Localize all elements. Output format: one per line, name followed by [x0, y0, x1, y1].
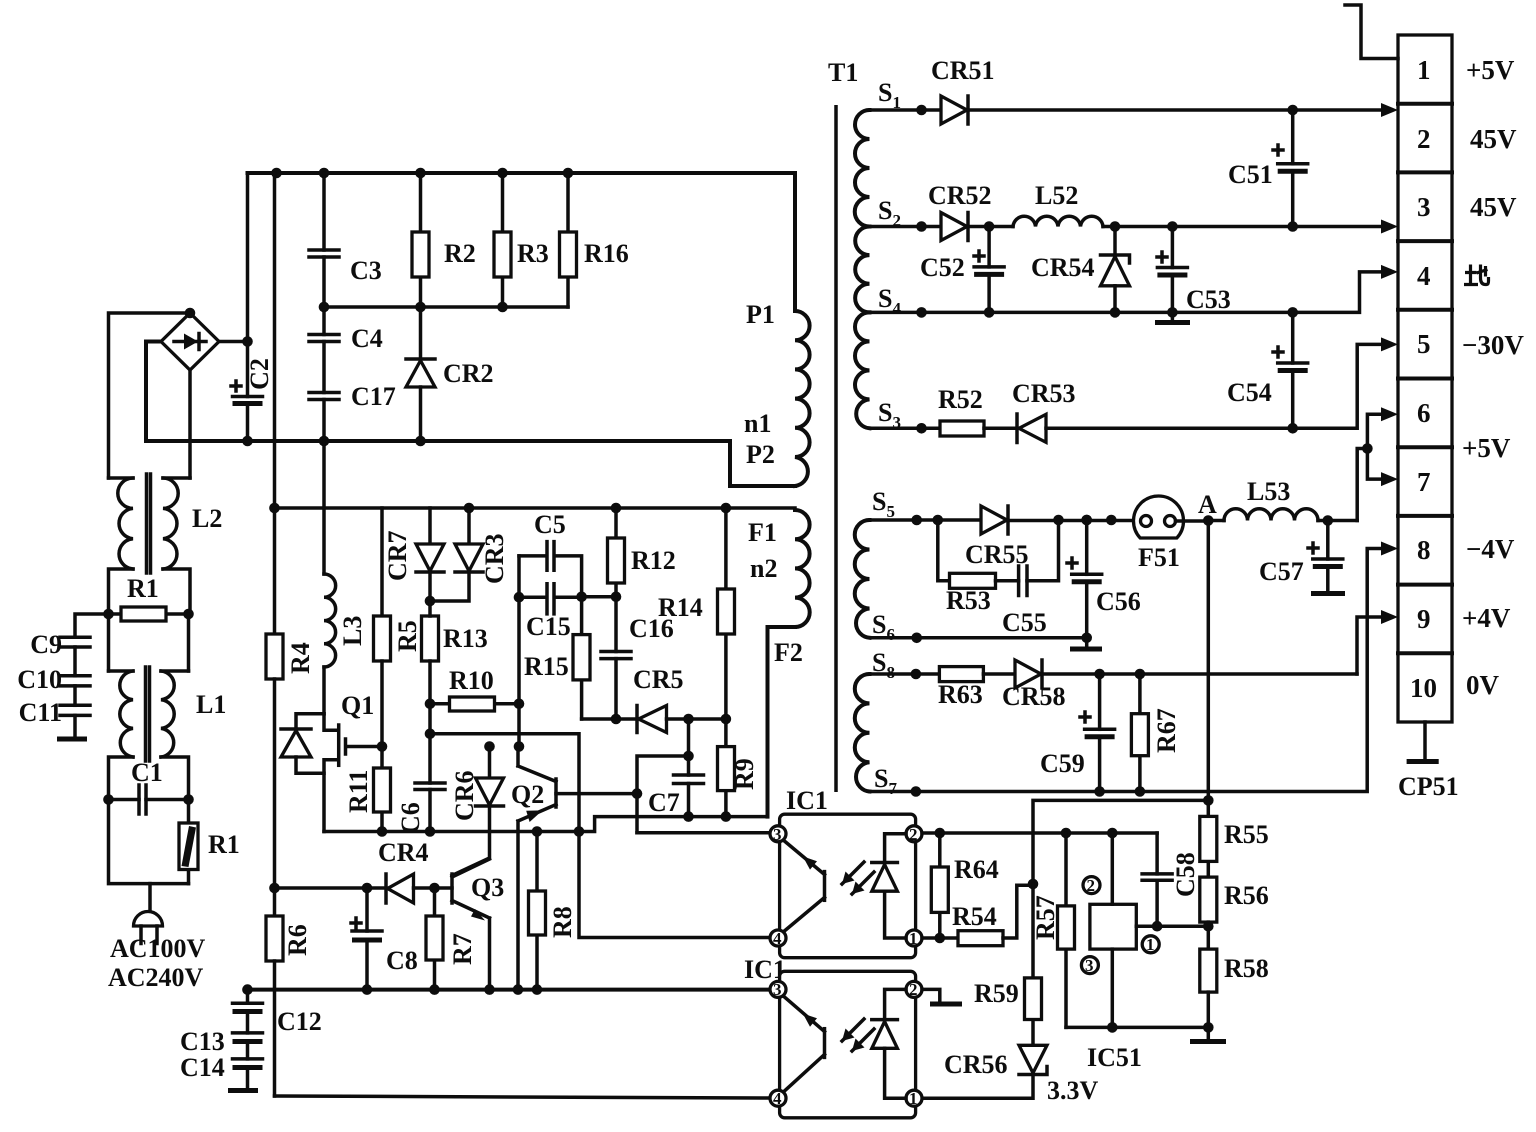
svg-text:Q2: Q2: [511, 780, 544, 809]
svg-text:C55: C55: [1002, 608, 1047, 637]
ground below C56: [1085, 638, 1089, 647]
capacitor C4: [309, 307, 383, 393]
wire P2 return bus: [146, 342, 795, 487]
resistor R57: [1031, 833, 1075, 1027]
svg-text:3.3V: 3.3V: [1047, 1076, 1099, 1105]
resistor R56: [1200, 877, 1269, 949]
arrow into pin 3: [1381, 220, 1398, 234]
svg-text:CR54: CR54: [1031, 253, 1095, 282]
svg-text:C1: C1: [131, 758, 163, 787]
capacitor C59: [1040, 674, 1115, 797]
node C51 bottom junction: [1287, 221, 1298, 232]
capacitor C56: [1067, 515, 1141, 643]
inductor L3: [324, 441, 367, 714]
winding S1-S2: [855, 110, 870, 227]
svg-text:F51: F51: [1138, 543, 1180, 572]
diode CR51: [870, 56, 995, 124]
svg-text:3: 3: [773, 825, 782, 844]
capacitor C52: [920, 221, 1004, 318]
resistor R11: [344, 747, 391, 837]
diode CR3: [430, 508, 509, 601]
svg-text:R7: R7: [448, 933, 477, 965]
resistor R53: [938, 520, 1019, 615]
svg-text:9: 9: [1417, 604, 1431, 634]
svg-text:10: 10: [1410, 673, 1437, 703]
node R13/C6 feedback junction: [425, 729, 436, 740]
diode CR55: [870, 506, 1141, 569]
svg-text:4: 4: [1417, 261, 1431, 291]
ground below C53: [1171, 312, 1175, 320]
transformer T1 primary P1 winding: [744, 173, 810, 486]
winding S8-S7: [855, 674, 870, 792]
wire R57 rail feed: [1033, 800, 1208, 884]
arrow into pin 4: [1381, 265, 1398, 279]
resistor R12: [582, 508, 676, 602]
capacitor C16: [601, 597, 674, 725]
node S7 tap junction: [911, 786, 922, 797]
wire gate line: [514, 741, 525, 752]
resistor R6: [266, 916, 312, 1096]
resistor R67: [1131, 674, 1181, 797]
svg-text:C6: C6: [396, 802, 425, 834]
svg-text:CR6: CR6: [450, 770, 479, 821]
svg-text:R13: R13: [443, 624, 488, 653]
svg-text:C56: C56: [1096, 587, 1141, 616]
capacitor C9: [30, 614, 108, 676]
arrow into pin 2: [1381, 103, 1398, 117]
svg-text:F2: F2: [774, 638, 803, 667]
svg-text:CR2: CR2: [443, 359, 494, 388]
node IC51 pin2 junction: [1107, 828, 1118, 839]
svg-text:R15: R15: [524, 652, 569, 681]
winding S4-S3: [855, 312, 870, 428]
transistor Q3: [452, 859, 504, 995]
capacitor C6: [396, 783, 445, 837]
resistor R16: [560, 173, 629, 307]
svg-text:Q3: Q3: [471, 873, 504, 902]
svg-text:CR7: CR7: [383, 530, 412, 581]
svg-text:8: 8: [1417, 535, 1431, 565]
zener CR56 3.3V: [922, 1045, 1099, 1105]
resistor R7: [426, 888, 477, 995]
svg-text:C51: C51: [1228, 160, 1273, 189]
capacitor C13: [180, 1027, 263, 1059]
wire feedback row to opto pin4: [430, 734, 770, 938]
svg-text:C59: C59: [1040, 749, 1085, 778]
node bridge output junction: [242, 336, 253, 347]
wire opto2 pin2 stub: [922, 989, 940, 1002]
svg-text:R53: R53: [946, 586, 991, 615]
node ground bus left junction: [242, 984, 253, 995]
diode CR52: [870, 181, 992, 241]
svg-text:R2: R2: [444, 239, 476, 268]
wire +5V to pin 7: [1367, 449, 1383, 480]
svg-text:C4: C4: [351, 324, 383, 353]
ground below C11: [57, 737, 87, 742]
resistor R52: [870, 385, 1018, 436]
resistor R64: [931, 828, 998, 944]
wire bridge top to left rail: [109, 313, 191, 478]
svg-text:C58: C58: [1171, 852, 1200, 897]
svg-text:C12: C12: [277, 1007, 322, 1036]
svg-text:C17: C17: [351, 382, 396, 411]
node top bus junctions: [271, 168, 282, 179]
svg-text:R16: R16: [584, 239, 629, 268]
node IC51 pin3 junction: [1107, 1022, 1118, 1033]
inductor L53: [1208, 477, 1357, 521]
resistor R1 (line filter): [103, 574, 194, 621]
svg-text:L1: L1: [196, 690, 226, 719]
diode CR54: [1031, 221, 1130, 318]
resistor R13: [422, 601, 488, 704]
wire S7 row to pin8: [870, 549, 1384, 792]
wire source sense row: [324, 817, 768, 832]
svg-text:R9: R9: [730, 758, 759, 790]
svg-text:4: 4: [773, 929, 782, 948]
capacitor C15: [514, 584, 587, 641]
svg-text:CR58: CR58: [1002, 682, 1066, 711]
node S4 tap junction: [916, 307, 927, 318]
diode CR5: [582, 665, 732, 733]
svg-text:1: 1: [909, 929, 918, 948]
wire bridge bottom to L2: [188, 370, 192, 478]
svg-text:−4V: −4V: [1466, 534, 1515, 564]
wire bridge right to C2 line: [219, 340, 248, 344]
resistor R5: [374, 508, 423, 752]
resistor R54: [922, 885, 1033, 946]
svg-text:CR5: CR5: [633, 665, 684, 694]
node R55 top junction: [1203, 795, 1214, 806]
svg-text:3: 3: [773, 980, 782, 999]
svg-text:C5: C5: [534, 510, 566, 539]
svg-text:L52: L52: [1035, 181, 1078, 210]
svg-text:R14: R14: [658, 593, 703, 622]
transformer T1 core: [834, 105, 838, 792]
svg-text:R1: R1: [127, 574, 159, 603]
svg-text:5: 5: [1417, 329, 1431, 359]
wire IC51 bottom rail: [1066, 1026, 1208, 1030]
svg-text:R3: R3: [517, 239, 549, 268]
svg-text:R57: R57: [1031, 895, 1060, 940]
svg-text:R56: R56: [1224, 881, 1269, 910]
capacitor C7: [632, 719, 704, 833]
bridge rectifier: [161, 308, 219, 370]
capacitor C14: [180, 1053, 263, 1088]
diode CR53: [1012, 379, 1293, 443]
capacitor C3: [309, 173, 382, 312]
svg-text:7: 7: [1417, 467, 1431, 497]
svg-text:R58: R58: [1224, 954, 1269, 983]
svg-text:1: 1: [1146, 935, 1155, 954]
svg-text:C52: C52: [920, 253, 965, 282]
capacitor C58: [1142, 833, 1200, 926]
svg-text:3: 3: [1417, 192, 1431, 222]
capacitor C17: [309, 382, 396, 446]
svg-text:R1: R1: [208, 830, 240, 859]
svg-text:R59: R59: [974, 979, 1019, 1008]
svg-text:IC1: IC1: [786, 786, 828, 815]
node Q2 emitter ground junction: [513, 984, 524, 995]
svg-text:C8: C8: [386, 946, 418, 975]
svg-text:+5V: +5V: [1462, 433, 1511, 463]
resistor R4: [266, 634, 315, 916]
wire bottom return bus: [275, 1096, 771, 1098]
svg-text:R52: R52: [938, 385, 983, 414]
svg-text:C10: C10: [17, 665, 62, 694]
svg-text:F1: F1: [748, 518, 777, 547]
node R57 top junction: [1061, 828, 1072, 839]
svg-text:0V: 0V: [1466, 670, 1500, 700]
svg-text:P1: P1: [746, 300, 775, 329]
wire C5/C15 rail: [517, 556, 521, 747]
diode CR58: [1002, 660, 1357, 711]
node R8 top junction: [532, 826, 543, 837]
inductor L52: [968, 181, 1103, 227]
ground bar CP51: [1407, 759, 1439, 764]
svg-text:L2: L2: [192, 504, 222, 533]
resistor R2: [412, 173, 476, 312]
capacitor C55: [1002, 520, 1059, 637]
svg-text:IC51: IC51: [1087, 1043, 1142, 1072]
resistor R3: [494, 173, 549, 312]
wire HV feed left rail: [273, 173, 277, 634]
svg-text:AC100V: AC100V: [110, 934, 206, 963]
svg-text:3: 3: [1085, 956, 1094, 975]
wire AC loop bottom: [109, 800, 189, 884]
ground below C56 bar: [1070, 647, 1102, 652]
svg-text:45V: 45V: [1470, 192, 1517, 222]
transformer T1 feedback winding F1 n2: [748, 510, 810, 817]
capacitor C54: [1227, 307, 1308, 434]
svg-text:R55: R55: [1224, 820, 1269, 849]
capacitor C51: [1228, 105, 1308, 227]
svg-text:C13: C13: [180, 1027, 225, 1056]
svg-text:C2: C2: [245, 358, 274, 390]
capacitor C1: [103, 758, 194, 814]
diode CR2: [406, 307, 494, 446]
svg-text:4: 4: [773, 1089, 782, 1108]
ground below R58 bar: [1190, 1039, 1226, 1044]
wire opto1 pin2 feedback rail: [922, 831, 1157, 835]
fuse F51: [1134, 496, 1209, 572]
winding S2-S4: [855, 227, 869, 313]
svg-text:2: 2: [909, 980, 918, 999]
svg-text:CR53: CR53: [1012, 379, 1076, 408]
node source line / opto pin4 junction: [574, 826, 585, 837]
node gate drive row left junction: [269, 503, 280, 514]
svg-text:45V: 45V: [1470, 124, 1517, 154]
node gate drive row junctions: [464, 503, 475, 514]
svg-text:n1: n1: [744, 409, 771, 438]
svg-text:1: 1: [909, 1089, 918, 1108]
svg-text:T1: T1: [828, 58, 858, 87]
svg-text:C54: C54: [1227, 378, 1272, 407]
winding S5-S6: [855, 520, 870, 638]
label ground (di) pin4: [1464, 265, 1489, 286]
svg-text:+5V: +5V: [1466, 55, 1515, 85]
svg-text:R54: R54: [952, 902, 997, 931]
wire top bus primary: [248, 171, 796, 175]
svg-text:R5: R5: [393, 620, 422, 652]
capacitor C12: [233, 990, 322, 1036]
capacitor C53: [1157, 221, 1231, 318]
svg-text:R64: R64: [954, 855, 999, 884]
svg-text:C15: C15: [526, 612, 571, 641]
node S6 tap junction: [911, 633, 922, 644]
svg-text:1: 1: [1417, 55, 1431, 85]
wire primary ground bus: [248, 988, 771, 992]
transistor Q1 MOSFET with body diode: [281, 691, 382, 832]
svg-text:−30V: −30V: [1462, 330, 1524, 360]
wire pin1 stub to top: [1345, 5, 1398, 59]
svg-text:R10: R10: [449, 666, 494, 695]
resistor R63: [870, 667, 1016, 709]
svg-text:CP51: CP51: [1398, 772, 1459, 801]
ground below C14: [228, 1088, 258, 1093]
svg-text:C53: C53: [1186, 285, 1231, 314]
thermistor R1 (vertical, filled): [179, 800, 240, 884]
resistor R8: [529, 832, 578, 995]
resistor R15: [524, 597, 590, 719]
svg-text:R6: R6: [283, 924, 312, 956]
transistor Q2: [511, 747, 637, 990]
svg-text:2: 2: [1417, 124, 1431, 154]
ground below C57: [1311, 591, 1345, 596]
arrow into pin 6: [1381, 407, 1398, 421]
svg-text:C57: C57: [1259, 557, 1304, 586]
wire S3 row to pin5: [1293, 344, 1383, 428]
wire +5V to pin 6: [1367, 414, 1383, 448]
wire R13 bottom to C6: [428, 704, 432, 783]
ground CP51: [1423, 722, 1427, 759]
wire +5V feed to pins 6 and 7: [1357, 449, 1367, 521]
svg-text:CR4: CR4: [378, 838, 429, 867]
connector CP51 body: [1398, 35, 1452, 722]
svg-text:L53: L53: [1247, 477, 1290, 506]
svg-text:R12: R12: [631, 546, 676, 575]
optocoupler IC1 lower: [744, 955, 922, 1118]
wire S1 output to pin1 row: [968, 108, 1383, 112]
svg-text:CR52: CR52: [928, 181, 992, 210]
svg-text:+4V: +4V: [1462, 603, 1511, 633]
chassis bar at opto2 pin2: [930, 1002, 962, 1007]
svg-text:R8: R8: [548, 906, 577, 938]
svg-text:C7: C7: [648, 788, 680, 817]
capacitor C8: [351, 883, 418, 995]
wire S4 ground row to pin4: [870, 272, 1384, 313]
capacitor C57: [1259, 515, 1343, 591]
svg-text:R4: R4: [286, 642, 315, 674]
svg-text:R63: R63: [938, 680, 983, 709]
svg-text:2: 2: [909, 825, 918, 844]
svg-text:A: A: [1198, 490, 1217, 519]
diode CR6: [450, 741, 504, 875]
optocoupler IC1 upper: [770, 786, 922, 958]
svg-text:C9: C9: [30, 630, 62, 659]
svg-text:CR3: CR3: [480, 533, 509, 584]
capacitor C2: [231, 173, 274, 441]
diode CR4: [275, 838, 453, 903]
arrow into pin 5: [1381, 337, 1398, 351]
node A: [1203, 515, 1214, 526]
svg-text:6: 6: [1417, 398, 1431, 428]
svg-text:AC240V: AC240V: [108, 963, 204, 992]
capacitor C11: [19, 698, 90, 737]
wire snubber junction row: [324, 305, 568, 309]
svg-text:CR51: CR51: [931, 56, 995, 85]
svg-text:R11: R11: [344, 770, 373, 813]
resistor R55: [1200, 800, 1269, 877]
resistor R59: [974, 884, 1042, 1045]
regulator IC51: [1081, 833, 1208, 1072]
resistor R9: [718, 719, 760, 822]
arrow into pin 9: [1381, 610, 1398, 624]
svg-text:C3: C3: [350, 256, 382, 285]
node P2 bus / C2 junction: [242, 436, 253, 447]
svg-text:C14: C14: [180, 1053, 225, 1082]
svg-text:n2: n2: [750, 554, 777, 583]
wire S6 row: [870, 636, 1087, 640]
resistor R14: [658, 508, 735, 719]
inductor L2 common-mode choke: [109, 474, 223, 614]
node R54/R59 junction: [1028, 879, 1039, 890]
diode CR7: [383, 508, 444, 606]
inductor L1 common-mode choke: [109, 614, 227, 800]
resistor R58: [1200, 949, 1269, 1033]
svg-text:CR56: CR56: [944, 1050, 1008, 1079]
svg-text:Q1: Q1: [341, 691, 374, 720]
capacitor C5: [519, 510, 582, 597]
arrow into pin 7: [1381, 472, 1398, 486]
wire 45V row to pin3: [1103, 225, 1383, 229]
wire A node sense line down: [1207, 521, 1211, 801]
svg-text:P2: P2: [746, 440, 775, 469]
ground below C53 bar: [1155, 320, 1190, 325]
svg-text:2: 2: [1087, 876, 1096, 895]
AC plug: [134, 884, 163, 944]
arrow into pin 8: [1381, 542, 1398, 556]
resistor R10: [425, 666, 525, 711]
node +5V fork junction: [1362, 443, 1373, 454]
svg-text:C11: C11: [19, 698, 62, 727]
wire opto1 pin3 line: [637, 831, 770, 835]
ground below R58: [1207, 1027, 1211, 1039]
svg-text:R67: R67: [1152, 708, 1181, 753]
capacitor C10: [17, 665, 90, 705]
svg-text:L3: L3: [338, 616, 367, 646]
wire +4V feed to pin9: [1357, 617, 1383, 674]
wire gate drive row: [275, 506, 796, 510]
